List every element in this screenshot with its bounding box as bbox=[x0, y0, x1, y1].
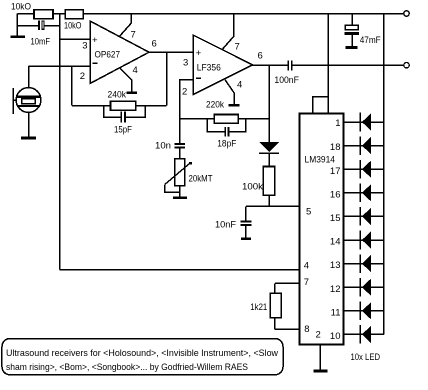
IC U3 LM3914 bbox=[300, 114, 344, 345]
ground bbox=[10, 35, 25, 38]
capacitor 18pF bbox=[207, 119, 224, 132]
svg-text:LF356: LF356 bbox=[197, 62, 221, 73]
IC top notch bbox=[313, 97, 329, 114]
svg-text:+: + bbox=[196, 48, 202, 59]
capacitor 47mF bbox=[351, 14, 353, 26]
svg-text:15: 15 bbox=[330, 213, 341, 224]
svg-text:20kMT: 20kMT bbox=[189, 174, 213, 185]
svg-text:3: 3 bbox=[82, 41, 87, 52]
LED row 2 bbox=[344, 136, 384, 155]
svg-text:Ultrasound receivers for <Hol: Ultrasound receivers for <Holosound>, <I… bbox=[6, 348, 278, 359]
resistor 100k bbox=[263, 167, 275, 196]
svg-text:6: 6 bbox=[152, 39, 157, 50]
wire pin5 bbox=[246, 205, 300, 207]
terminal output bbox=[404, 62, 409, 67]
wire pin2 ground bbox=[319, 345, 321, 370]
svg-text:14: 14 bbox=[330, 237, 341, 248]
svg-text:240k: 240k bbox=[108, 90, 127, 101]
svg-text:3: 3 bbox=[183, 58, 188, 69]
wire pin4 line to LM3914 bbox=[60, 269, 300, 271]
wire OP627 output to LF356 bbox=[149, 51, 193, 53]
wire pin8 bbox=[275, 328, 299, 330]
wire feedback right vertical bbox=[166, 52, 168, 105]
wire top supply bus bbox=[17, 13, 403, 15]
svg-text:8: 8 bbox=[304, 324, 309, 335]
svg-text:7: 7 bbox=[131, 30, 136, 41]
svg-text:10nF: 10nF bbox=[215, 220, 236, 231]
svg-text:10x LED: 10x LED bbox=[351, 352, 381, 363]
svg-text:47mF: 47mF bbox=[360, 35, 381, 46]
svg-text:4: 4 bbox=[304, 261, 309, 272]
LED row 5 bbox=[344, 207, 384, 226]
microphone bbox=[28, 66, 30, 87]
wire cap branch bbox=[17, 25, 38, 27]
svg-text:sham rising>, <Bom>, <Songbook: sham rising>, <Bom>, <Songbook>... by Go… bbox=[6, 362, 248, 373]
svg-text:4: 4 bbox=[237, 80, 242, 91]
svg-text:15pF: 15pF bbox=[114, 125, 132, 136]
ground bbox=[313, 370, 327, 373]
LED row 10 bbox=[344, 325, 384, 344]
svg-text:11: 11 bbox=[331, 307, 341, 318]
svg-text:2: 2 bbox=[316, 330, 321, 341]
wire op-amp - input / mic bbox=[29, 65, 91, 67]
wire LED anode bus bbox=[383, 14, 385, 335]
svg-text:10: 10 bbox=[330, 331, 341, 342]
wire V+ to IC bbox=[327, 14, 329, 114]
wire diode drop bbox=[268, 65, 270, 142]
svg-text:7: 7 bbox=[304, 277, 309, 288]
capacitor 10nF bbox=[245, 206, 247, 220]
svg-text:10n: 10n bbox=[155, 141, 171, 152]
svg-text:10kO: 10kO bbox=[11, 2, 31, 13]
svg-text:12: 12 bbox=[330, 284, 341, 295]
ground bbox=[229, 104, 240, 107]
capacitor 10n bbox=[174, 143, 185, 145]
svg-text:+: + bbox=[92, 35, 98, 46]
resistor R 10kO (first) bbox=[34, 10, 53, 19]
pin 7 OP627 bbox=[120, 14, 132, 37]
pin 7 LF356 bbox=[222, 14, 234, 50]
ground bbox=[21, 137, 36, 140]
terminal top bbox=[404, 11, 409, 16]
wire to 20kMT bbox=[179, 148, 181, 158]
wire 220k row bbox=[180, 118, 270, 120]
capacitor 10mF bbox=[38, 20, 40, 29]
svg-text:100k: 100k bbox=[242, 182, 263, 193]
LED row 9 bbox=[344, 302, 384, 321]
svg-text:OP627: OP627 bbox=[95, 50, 121, 61]
trimmer 20kMT bbox=[175, 159, 185, 186]
svg-text:16: 16 bbox=[330, 189, 341, 200]
wire op-amp + input bbox=[60, 38, 90, 40]
pin number labels bbox=[330, 118, 341, 342]
svg-text:17: 17 bbox=[330, 166, 341, 177]
wire LF356 - input bbox=[180, 80, 193, 144]
wire LF356 output bbox=[253, 64, 289, 66]
svg-text:6: 6 bbox=[258, 51, 263, 62]
LED row 3 bbox=[344, 160, 384, 179]
LED row 1 bbox=[344, 113, 384, 132]
pin 4 OP627 bbox=[120, 69, 131, 92]
LED row 6 bbox=[344, 231, 384, 250]
ground bbox=[127, 91, 138, 94]
wire pin7 bbox=[275, 282, 299, 284]
ground bbox=[346, 46, 358, 49]
svg-text:2: 2 bbox=[182, 87, 187, 98]
LED row 7 bbox=[344, 254, 384, 273]
LED row 4 bbox=[344, 184, 384, 203]
resistor 1k21 bbox=[274, 283, 276, 293]
op-amp U1 OP627 bbox=[90, 21, 149, 84]
pin 4 LF356 bbox=[225, 80, 234, 104]
resistor 220k bbox=[214, 114, 238, 123]
capacitor 15pF bbox=[104, 106, 121, 117]
svg-text:5: 5 bbox=[306, 207, 311, 218]
svg-text:100nF: 100nF bbox=[274, 75, 299, 86]
svg-text:LM3914: LM3914 bbox=[305, 155, 336, 166]
wire feedback row bbox=[72, 105, 167, 107]
op-amp U2 LF356 bbox=[193, 35, 253, 95]
capacitor 100nF bbox=[287, 61, 289, 71]
diode D1 bbox=[259, 142, 279, 152]
svg-text:1k21: 1k21 bbox=[250, 302, 267, 313]
svg-text:2: 2 bbox=[80, 71, 85, 82]
svg-text:1: 1 bbox=[335, 118, 340, 129]
svg-text:18pF: 18pF bbox=[217, 139, 236, 150]
svg-text:10kO: 10kO bbox=[64, 21, 82, 32]
LED row 8 bbox=[344, 278, 384, 297]
ground bbox=[173, 196, 187, 199]
svg-text:18: 18 bbox=[330, 142, 341, 153]
wire long vertical node bbox=[59, 14, 61, 270]
wire left input drop bbox=[16, 14, 18, 36]
resistor 240k bbox=[111, 101, 136, 110]
svg-text:7: 7 bbox=[235, 42, 240, 53]
note box bbox=[2, 339, 283, 375]
svg-text:13: 13 bbox=[330, 260, 341, 271]
svg-text:4: 4 bbox=[133, 65, 138, 76]
wire feedback left vertical bbox=[71, 66, 73, 106]
resistor R 10kO (second) bbox=[65, 10, 83, 19]
LED rows bbox=[344, 113, 384, 344]
svg-text:10mF: 10mF bbox=[31, 37, 51, 48]
svg-text:220k: 220k bbox=[206, 100, 224, 111]
ground bbox=[241, 237, 251, 240]
